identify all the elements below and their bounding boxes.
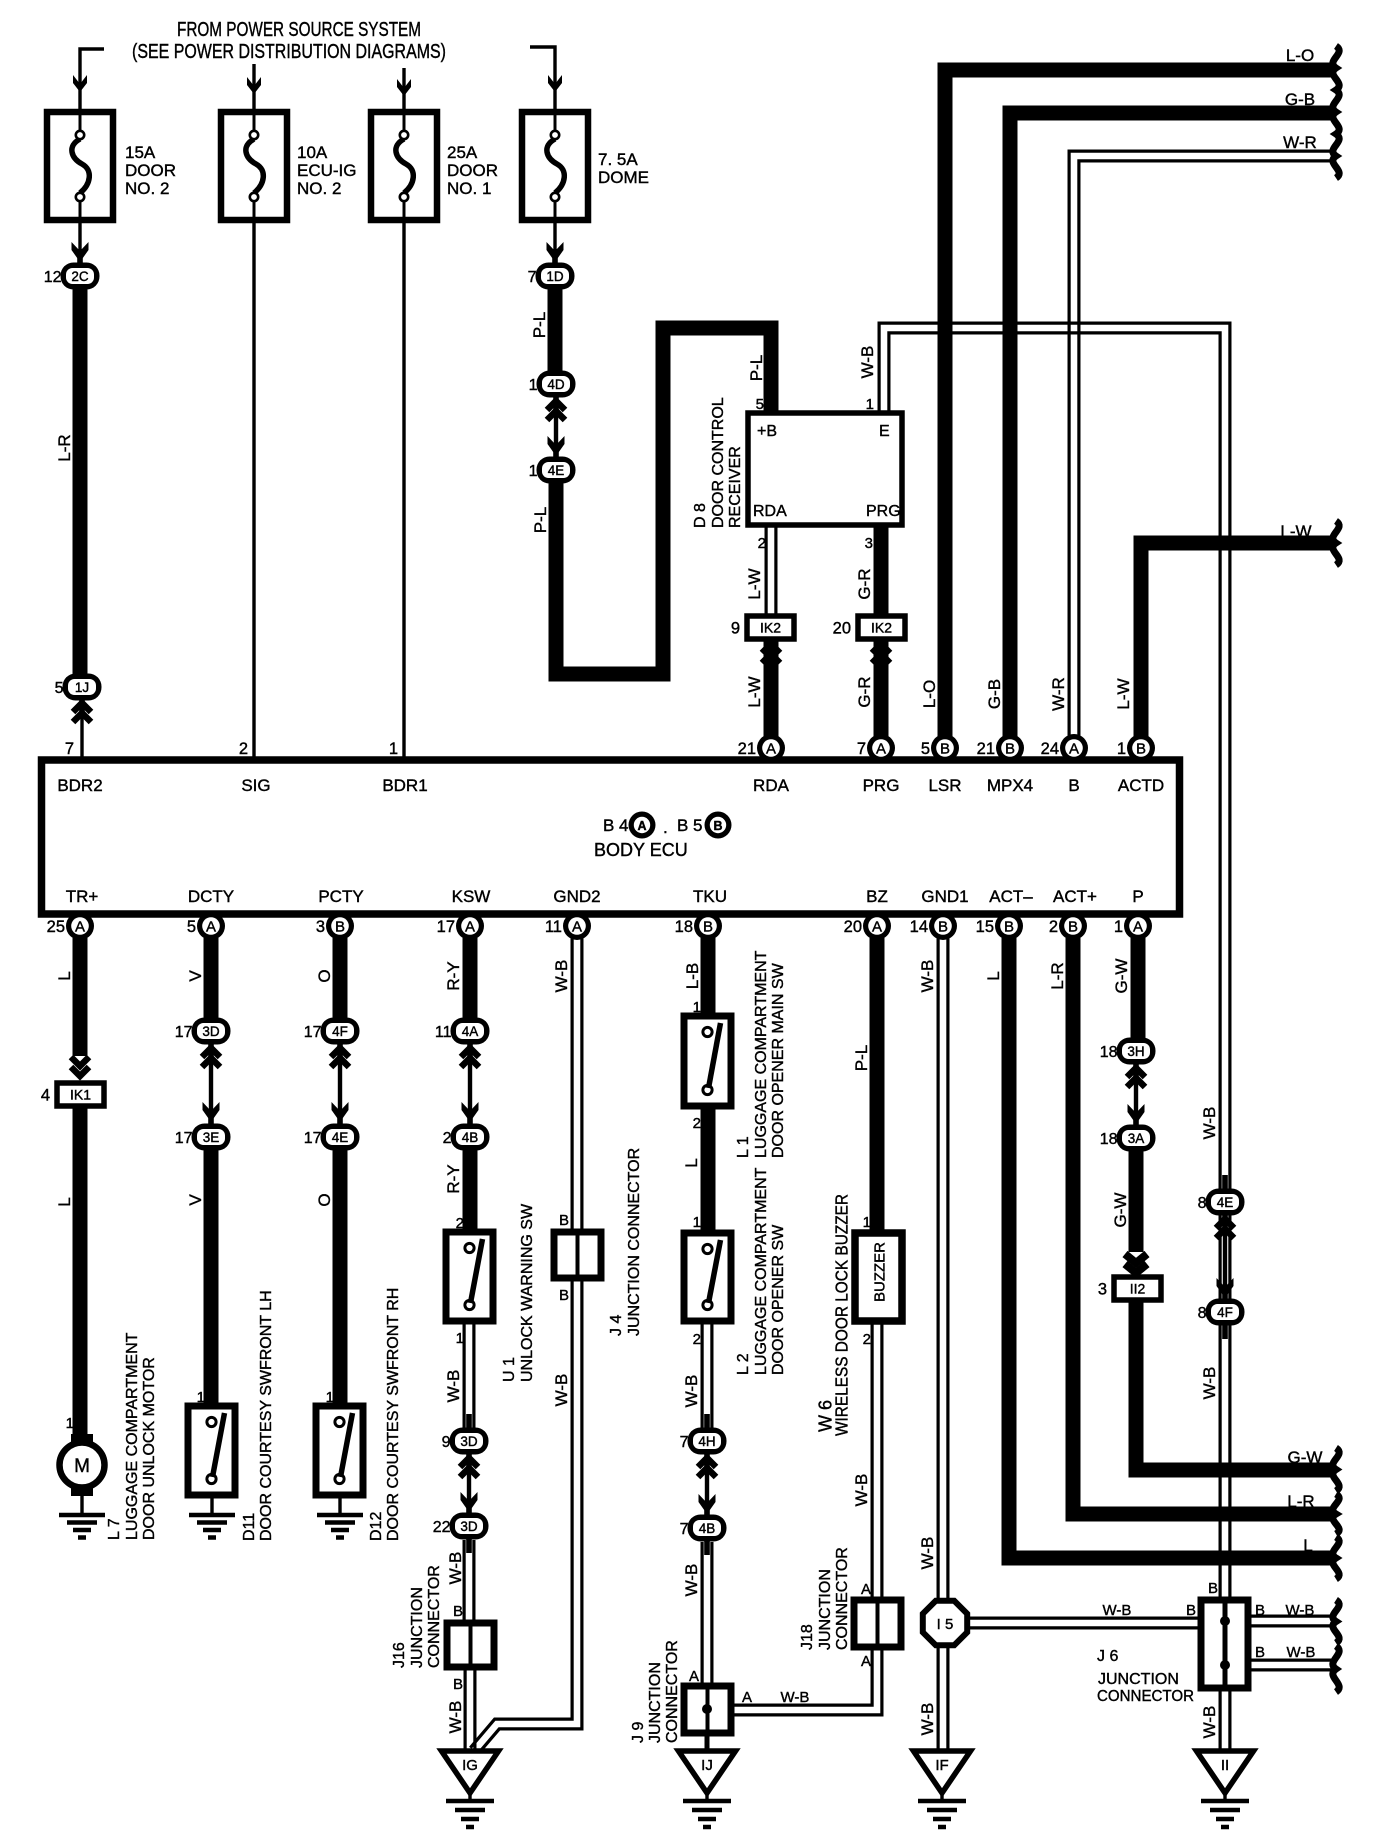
svg-text:B: B [453,1676,463,1693]
svg-text:W-B: W-B [1103,1602,1132,1619]
svg-text:11: 11 [435,1024,452,1041]
svg-text:TR+: TR+ [66,887,99,906]
svg-text:BDR2: BDR2 [57,776,102,795]
svg-text:B: B [703,919,713,936]
svg-text:17: 17 [175,1130,193,1147]
wire W-B: J16 to ground IG [464,1667,467,1751]
wire W-B: connector 3D(22) to J16 [463,1540,466,1623]
svg-text:L 1: L 1 [735,1136,752,1158]
arrowhead: fuse2 feed [247,77,261,94]
svg-text:1: 1 [863,1214,871,1231]
svg-text:J16: J16 [391,1642,408,1668]
svg-text:15A: 15A [125,143,156,162]
svg-text:G-W: G-W [1112,959,1131,994]
wire L-R: connector 2C to 1J [73,288,88,676]
wire: thin link 3D-3E [209,1044,213,1124]
svg-text:17: 17 [304,1130,322,1147]
svg-text:11: 11 [545,918,562,936]
connector 1D pin 7 [528,249,575,303]
svg-text:17: 17 [175,1024,193,1041]
svg-text:GND1: GND1 [921,887,968,906]
chevrons up below 4D / arrow into 4E [547,401,565,410]
svg-text:W-B: W-B [1200,1706,1219,1739]
svg-text:4H: 4H [698,1434,715,1449]
svg-text:B: B [713,819,722,833]
svg-text:L-W: L-W [745,676,764,707]
svg-text:RDA: RDA [753,776,790,795]
wire L: IK1 to motor [73,1105,88,1443]
wire L-W: IK2 to ECU RDA pin [764,640,779,737]
svg-text:17: 17 [437,918,455,936]
junction connector J9 [684,1686,731,1733]
arrowhead: fuse3 feed [397,79,411,96]
connector 4E [529,443,576,497]
wire: fuse1 to connector 2C [78,220,81,262]
svg-text:L-W: L-W [745,568,764,599]
svg-text:P-L: P-L [530,312,549,338]
svg-text:W-R: W-R [1049,677,1068,711]
wire L-R: ECU ACT+ to right harness [1073,938,1333,1514]
connector 3H pin 18 [1100,1024,1156,1078]
wire: thin link 3D-3D (KSW) [467,1454,471,1513]
svg-text:DOOR UNLOCK MOTOR: DOOR UNLOCK MOTOR [141,1357,158,1540]
svg-text:1: 1 [529,463,538,480]
wire: fuse 2 feed [252,64,255,112]
ground IJ [679,1751,736,1827]
svg-text:4E: 4E [548,463,565,478]
wire P-L: connector 4E loop to receiver +B [556,328,771,674]
svg-text:L: L [984,971,1003,980]
svg-text:LUGGAGE COMPARTMENT: LUGGAGE COMPARTMENT [124,1332,141,1540]
ECU pin 5 LSR circle B [921,734,959,762]
wire: fuse 1 feed from power source [80,49,104,112]
svg-text:4E: 4E [1217,1195,1234,1210]
arrowhead: fuse4 feed [548,75,562,92]
wire W-R: from right edge to ECU pin B (24) [1079,161,1333,737]
ECU pin 17 KSW circle A [437,912,484,940]
fuse 7.5A DOME [522,112,588,220]
svg-text:W-B: W-B [781,1689,810,1706]
wire W-B: connector 4B(7) to J9 [700,1542,703,1686]
svg-text:JUNCTION: JUNCTION [409,1587,426,1668]
svg-text:L-B: L-B [683,963,702,989]
svg-text:1: 1 [693,1214,701,1231]
junction connector J18 [854,1600,901,1647]
svg-text:1: 1 [529,377,538,394]
svg-text:BDR1: BDR1 [382,776,427,795]
svg-text:L-R: L-R [1048,962,1067,989]
svg-text:3D: 3D [460,1519,478,1534]
svg-text:PCTY: PCTY [318,887,363,906]
svg-text:W-B: W-B [852,1474,871,1507]
ECU pin 15 ACT- circle B [976,912,1023,940]
svg-text:21: 21 [977,740,995,758]
svg-text:12: 12 [44,269,62,286]
svg-text:3D: 3D [202,1024,220,1039]
svg-text:B 4: B 4 [603,816,629,835]
svg-text:A: A [206,919,216,936]
wire G-W: ECU P to connector 3H [1131,938,1146,1040]
svg-text:DOOR OPENER SW: DOOR OPENER SW [770,1224,787,1375]
svg-text:G-R: G-R [855,568,874,599]
wire: thin link between 4D and 4E [554,397,558,457]
svg-text:9: 9 [442,1434,451,1451]
svg-text:L 7: L 7 [106,1518,123,1540]
svg-text:4B: 4B [699,1521,716,1536]
arrowhead into 2C [72,242,89,262]
svg-text:W-B: W-B [1287,1644,1316,1661]
svg-text:21: 21 [738,740,756,758]
wire: fuse 3 feed [402,68,405,112]
wire L-W: right harness to ECU ACTD pin [1141,543,1333,737]
svg-text:A: A [861,1653,871,1670]
svg-text:A: A [876,741,886,758]
svg-text:NO. 1: NO. 1 [447,179,491,198]
arrowhead into 1D [547,242,564,262]
svg-text:NO. 2: NO. 2 [297,179,341,198]
wire L-B: ECU TKU to L1 [701,938,716,1016]
svg-text:W-B: W-B [552,1374,571,1407]
svg-text:B: B [1186,1602,1196,1619]
svg-text:W-B: W-B [682,1564,701,1597]
svg-text:1: 1 [1114,918,1123,936]
fuse 25A DOOR NO. 1 [371,112,437,220]
wire: thin link 4F-4E [338,1044,342,1124]
svg-text:RECEIVER: RECEIVER [727,446,744,528]
svg-text:ECU-IG: ECU-IG [297,161,357,180]
svg-text:14: 14 [910,918,928,936]
wire: BDR1 from fuse3 to ECU pin 1 [402,220,405,759]
svg-text:CONNECTOR: CONNECTOR [834,1547,851,1650]
svg-text:I 5: I 5 [937,1616,954,1633]
wire: thin link 4E-4F (right W-B) [1213,1213,1237,1301]
harness break squiggle W-B lower [1333,1646,1339,1692]
svg-text:L-O: L-O [920,680,939,708]
svg-text:R-Y: R-Y [444,1164,463,1193]
svg-text:IJ: IJ [701,1757,713,1774]
svg-text:DOOR COURTESY SWFRONT RH: DOOR COURTESY SWFRONT RH [385,1288,402,1541]
svg-text:20: 20 [833,620,851,638]
connector 4E pin 8 (right) [1198,1175,1245,1229]
svg-text:LUGGAGE COMPARTMENT: LUGGAGE COMPARTMENT [753,950,770,1158]
svg-text:IG: IG [462,1757,478,1774]
svg-text:7: 7 [528,269,537,286]
svg-text:4B: 4B [462,1130,479,1145]
svg-text:BUZZER: BUZZER [871,1242,888,1302]
svg-text:22: 22 [433,1519,451,1536]
chevrons below 4E(8) / arrow into 4F(8) [1216,1219,1234,1228]
svg-text:V: V [186,970,205,982]
fuse 10A ECU-IG NO. 2 [221,112,287,220]
fuse 15A DOOR NO. 2 [47,112,113,220]
svg-text:L: L [55,1197,74,1206]
ECU pin 20 BZ circle A [844,912,891,940]
ECU pin 11 GND2 circle A [545,912,591,940]
svg-text:G-B: G-B [1285,90,1315,109]
wire R-Y: connector 4B to U1 [463,1150,478,1232]
wire: fuse 4 feed from power source [530,47,555,112]
wire: thin link 4A-4B [468,1044,472,1124]
svg-text:BZ: BZ [866,887,888,906]
svg-text:1: 1 [456,1330,464,1347]
chevrons below 4H / arrow into 4B [698,1458,716,1467]
svg-text:2: 2 [443,1130,452,1147]
svg-text:18: 18 [1100,1044,1118,1061]
svg-text:M: M [74,1456,90,1477]
svg-text:LSR: LSR [928,776,961,795]
svg-text:FROM POWER SOURCE SYSTEM: FROM POWER SOURCE SYSTEM [177,19,421,41]
wire G-R: receiver PRG to IK2 [874,525,889,616]
connector 2C pin 12 [44,249,100,303]
svg-text:DOME: DOME [598,168,649,187]
junction IK2 pin 9 [731,616,794,639]
svg-text:W-B: W-B [918,960,937,993]
wire G-W: II2 to right harness [1136,1300,1333,1470]
wire: fuse4 to connector 1D [553,220,556,262]
svg-text:L 2: L 2 [735,1353,752,1375]
svg-text:+B: +B [757,423,777,440]
svg-text:B: B [335,919,345,936]
switch U1 unlock warning sw [446,1232,493,1321]
svg-text:DOOR OPENER MAIN SW: DOOR OPENER MAIN SW [770,962,787,1158]
svg-text:D12: D12 [368,1512,385,1541]
svg-text:RDA: RDA [753,503,787,520]
svg-text:D 8: D 8 [692,503,709,528]
svg-text:3: 3 [865,535,873,552]
svg-text:ACT–: ACT– [989,887,1033,906]
svg-text:8: 8 [1198,1305,1207,1322]
svg-text:B: B [1004,919,1014,936]
svg-text:3: 3 [316,918,325,936]
svg-text:4D: 4D [547,377,565,392]
svg-text:MPX4: MPX4 [987,776,1033,795]
svg-text:W-B: W-B [918,1537,937,1570]
svg-text:25: 25 [47,918,65,936]
svg-text:P-L: P-L [852,1045,871,1071]
svg-text:1: 1 [389,740,398,758]
ground IF [914,1751,971,1827]
harness break squiggle L-W [1333,521,1339,565]
wire G-W: connector 3A to II2 [1129,1150,1144,1252]
svg-text:18: 18 [675,918,693,936]
buzzer W6 wireless door lock buzzer [855,1233,902,1321]
connector 4B pin 7 [680,1501,727,1555]
svg-text:L: L [682,1158,701,1167]
svg-text:DOOR COURTESY SWFRONT LH: DOOR COURTESY SWFRONT LH [258,1290,275,1541]
wire W-B: I5 down to ground IF [936,1647,939,1751]
svg-text:L: L [1303,1536,1312,1555]
connector 4H pin 7 [680,1414,727,1468]
svg-text:G-R: G-R [855,676,874,707]
svg-text:L-W: L-W [1280,522,1311,541]
svg-text:GND2: GND2 [553,887,600,906]
wire W-B: J18 down then left to J9 [731,1647,882,1715]
svg-text:A: A [75,919,85,936]
svg-text:W-R: W-R [1283,133,1317,152]
ECU pin 1 ACTD circle B [1117,734,1155,762]
chevrons below 3D / arrow into 3E [202,1048,220,1057]
connector 3E pin 17 (DCTY) [175,1110,231,1164]
ECU pin 14 GND1 circle B [910,912,957,940]
op-amp D8 door control receiver box [748,413,902,525]
svg-text:B: B [938,919,948,936]
ECU pin 24 B circle A [1041,734,1088,762]
wire O: connector 4E to switch D12 [333,1150,348,1406]
connector 4F pin 8 (right) [1198,1285,1245,1339]
svg-text:1D: 1D [546,269,564,284]
chevrons below 4F / arrow into 4E [331,1048,349,1057]
svg-text:7: 7 [857,740,866,758]
ECU pin 1 P circle A [1114,912,1152,940]
svg-text:JUNCTION: JUNCTION [1098,1671,1179,1688]
svg-text:B: B [1255,1644,1265,1661]
ECU pin 18 TKU circle B [675,912,722,940]
svg-text:G-W: G-W [1111,1193,1130,1228]
chevrons below 3H / arrow into 3A [1127,1068,1145,1077]
svg-text:A: A [861,1581,871,1598]
wire: J9 to ground IJ [705,1733,710,1753]
svg-text:7: 7 [680,1521,689,1538]
svg-text:CONNECTOR: CONNECTOR [664,1640,681,1743]
svg-text:W-B: W-B [552,960,571,993]
svg-text:IK1: IK1 [70,1087,91,1103]
svg-text:.: . [663,818,668,837]
svg-text:4: 4 [41,1087,50,1105]
svg-text:W-B: W-B [858,346,877,379]
svg-text:5: 5 [756,396,764,413]
svg-text:3D: 3D [460,1434,478,1449]
ECU pin 25 TR+ circle A [47,912,94,940]
wire: thin link 4H-4B (TKU) [705,1454,709,1515]
svg-text:B: B [453,1603,463,1620]
chevrons up into 1J [73,703,91,712]
svg-text:LUGGAGE COMPARTMENT: LUGGAGE COMPARTMENT [753,1167,770,1375]
connector I5 octagon [923,1601,967,1645]
svg-text:A: A [637,819,646,833]
wire W-B: J6 down to ground II [1218,1686,1221,1751]
svg-text:U 1: U 1 [501,1357,518,1382]
harness break squiggle L [1333,1537,1339,1579]
switch D11 door courtesy sw front LH [188,1406,235,1495]
connector 3D pin 9 [442,1414,489,1468]
svg-text:2: 2 [863,1331,871,1348]
svg-text:3H: 3H [1127,1044,1144,1059]
svg-text:P-L: P-L [747,355,766,381]
junction connector J6 [1201,1600,1248,1688]
ECU pin 5 DCTY circle A [187,912,225,940]
svg-text:II: II [1221,1757,1229,1774]
ground below D11 [189,1515,235,1538]
svg-text:G-W: G-W [1288,1448,1323,1467]
connector 1J pin 5 [55,660,102,714]
svg-text:2: 2 [693,1115,701,1132]
ground below motor [59,1515,105,1538]
ground IG [442,1751,499,1827]
IC body ECU box [42,760,1180,914]
svg-text:P-L: P-L [531,507,550,533]
ECU pin 21 MPX4 circle B [977,734,1024,762]
svg-text:4F: 4F [332,1024,348,1039]
svg-text:3A: 3A [1128,1131,1145,1146]
svg-text:8: 8 [1198,1195,1207,1212]
harness break squiggle W-B upper [1333,1600,1339,1643]
connector 4F pin 17 (PCTY) [304,1004,360,1058]
svg-text:TKU: TKU [693,887,727,906]
svg-text:W-B: W-B [446,1701,465,1734]
svg-text:A: A [872,919,882,936]
chevrons below 3D(9) / arrow into 3D(22) [460,1458,478,1467]
switch D12 door courtesy sw front RH [316,1406,363,1495]
svg-text:O: O [315,1193,334,1206]
svg-text:7. 5A: 7. 5A [598,150,638,169]
wire W-B: GND1 to I5 [936,938,939,1600]
svg-text:PRG: PRG [866,503,901,520]
svg-text:R-Y: R-Y [444,961,463,990]
ECU pin 7 PRG circle A [857,734,895,762]
svg-text:1J: 1J [75,680,89,695]
wire W-B: J6 right outputs to harness [1246,1614,1333,1617]
svg-text:L-O: L-O [1286,46,1314,65]
svg-text:J 4: J 4 [608,1315,625,1336]
wire L: ECU ACT- to right harness [1009,938,1333,1558]
wire: D12 to ground [338,1495,341,1515]
svg-text:B: B [1208,1580,1218,1597]
svg-text:5: 5 [921,740,930,758]
svg-text:7: 7 [65,740,74,758]
svg-text:KSW: KSW [452,887,491,906]
svg-text:BODY ECU: BODY ECU [594,840,688,860]
svg-text:4A: 4A [462,1024,479,1039]
svg-text:3: 3 [1098,1281,1107,1299]
wire W-B: J4 down to ground IG [478,1278,582,1754]
svg-text:UNLOCK WARNING SW: UNLOCK WARNING SW [519,1203,536,1382]
wire W-B: door control receiver E pin up, right, and down to J6 [879,323,1230,1601]
svg-text:JUNCTION: JUNCTION [817,1569,834,1650]
svg-text:L-W: L-W [1114,678,1133,709]
wire L-W: receiver RDA pin to junction IK2 [764,525,767,618]
arrowhead: fuse1 feed [73,75,87,92]
svg-text:B: B [940,741,950,758]
chevrons below 4A / arrow into 4B [461,1048,479,1057]
svg-text:J 6: J 6 [1097,1648,1118,1665]
svg-text:IK2: IK2 [760,620,781,636]
svg-text:W-B: W-B [1200,1107,1219,1140]
wire O: ECU PCTY to connector 4F [333,938,348,1020]
wire L: ECU TR+ to IK1 [73,938,88,1056]
connector 3D pin 17 (DCTY) [175,1004,231,1058]
svg-text:2: 2 [239,740,248,758]
svg-text:B 5: B 5 [677,816,703,835]
svg-text:20: 20 [844,918,862,936]
svg-text:ACT+: ACT+ [1053,887,1097,906]
svg-text:B: B [1068,919,1078,936]
wire: D11 to ground [210,1495,213,1515]
ground below D12 [317,1515,363,1538]
ground II [1197,1751,1254,1827]
motor M luggage compartment door unlock motor [60,1434,105,1515]
svg-text:B: B [559,1287,569,1304]
connector 4D [529,357,576,411]
wire W-B: U1 pin1 to connector 3D [463,1321,466,1428]
harness break squiggle L-R [1333,1494,1339,1534]
svg-text:CONNECTOR: CONNECTOR [1097,1688,1194,1705]
svg-text:V: V [186,1194,205,1206]
svg-text:DOOR CONTROL: DOOR CONTROL [710,397,727,528]
svg-text:P: P [1132,887,1143,906]
svg-text:CONNECTOR: CONNECTOR [426,1565,443,1668]
svg-text:IF: IF [935,1757,948,1774]
ECU pin 2 ACT+ circle B [1049,912,1087,940]
